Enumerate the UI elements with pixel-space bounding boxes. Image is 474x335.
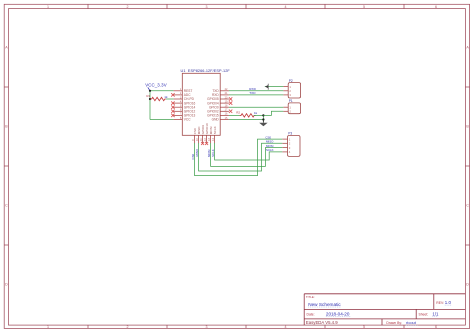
ground symbol xyxy=(259,120,267,126)
U1 pin 11 GPIO9 (bottom, no-connect X) xyxy=(200,125,205,145)
U1 pin 21 RXD (right) xyxy=(212,92,229,97)
U1 pin 8 VCC (left) xyxy=(174,117,192,122)
R1 value label 1k xyxy=(164,95,168,99)
svg-text:REV:: REV: xyxy=(436,301,444,305)
svg-text:EasyEDA V5.4.9: EasyEDA V5.4.9 xyxy=(306,320,338,325)
connector P2 (3-pin header) xyxy=(283,83,300,98)
svg-text:1: 1 xyxy=(47,5,49,9)
U1 pin 4 GPIO16 (left, no-connect X) xyxy=(171,100,195,105)
U1 pin 15 GND (right) xyxy=(212,117,229,122)
svg-text:4: 4 xyxy=(285,325,287,329)
R1 designator label xyxy=(146,94,150,98)
U1 pin 17 GPIO02 (right, no-connect X) xyxy=(207,109,232,114)
U1 pin 7 GPIO13 (left, no-connect X) xyxy=(171,113,195,118)
power arrow flag on P2 pin 1 xyxy=(265,84,284,90)
net label MOSI (at P3) xyxy=(266,144,274,148)
net label MISO (at P3) xyxy=(266,140,274,144)
resistor R2 xyxy=(240,114,256,117)
svg-text:VCC_3.3V: VCC_3.3V xyxy=(145,82,167,87)
U1 pin 2 ADC (left, no-connect X) xyxy=(171,92,191,97)
wire rail to VCC pin xyxy=(150,119,174,121)
svg-text:C: C xyxy=(5,204,8,208)
wire VCC_3.3V to REST xyxy=(150,90,174,92)
wire RXD pin to P2 pin 3 xyxy=(229,94,284,96)
wire MOSI net: U1 pin 13 to P3 pin 3 xyxy=(211,143,283,166)
P2 designator label xyxy=(289,79,293,83)
svg-text:GND: GND xyxy=(212,118,220,122)
U1 pin 13 MOSI (bottom) xyxy=(208,126,213,143)
net label MISO (vertical, at U1) xyxy=(195,148,199,156)
svg-text:Date:: Date: xyxy=(307,313,315,317)
wire ground node vertical xyxy=(262,115,264,122)
svg-text:TITLE:: TITLE: xyxy=(306,295,315,299)
svg-text:4: 4 xyxy=(285,5,287,9)
net label SCLK (vertical, at U1) xyxy=(211,149,215,157)
net label TXD xyxy=(249,91,256,95)
junction at rail / R1 xyxy=(149,98,151,100)
U1 pin 3 CH-PD (left) xyxy=(174,96,195,101)
P1 designator label xyxy=(289,99,293,103)
svg-text:1: 1 xyxy=(47,325,49,329)
svg-text:SCLK: SCLK xyxy=(266,148,274,152)
svg-text:1k: 1k xyxy=(164,95,168,99)
U1 pin 16 GPIO15 (right) xyxy=(207,113,229,118)
wire P1 pin 2 to ground node (stepped) xyxy=(263,111,283,115)
wire R2 to ground node xyxy=(254,114,264,116)
svg-text:VCC: VCC xyxy=(184,118,191,122)
wire GND pin to ground node xyxy=(229,119,264,121)
net label SCLK (at P3) xyxy=(266,148,274,152)
svg-text:MISO: MISO xyxy=(195,148,199,156)
title block xyxy=(304,294,465,325)
U1 pin 19 GPIO04 (right, no-connect X) xyxy=(207,100,232,105)
svg-text:P1: P1 xyxy=(289,99,293,103)
svg-text:1k: 1k xyxy=(254,111,258,115)
power flag VCC_3.3V xyxy=(145,82,167,90)
svg-text:2: 2 xyxy=(127,325,129,329)
U1 pin 10 MISO (bottom) xyxy=(196,126,201,143)
svg-text:1/1: 1/1 xyxy=(432,312,439,317)
junction ground node upper xyxy=(262,114,264,116)
svg-text:TXD: TXD xyxy=(249,91,256,95)
wire R1 to CH-PD xyxy=(166,98,174,100)
wire SCLK net: U1 pin 14 to P3 pin 4 xyxy=(215,143,283,160)
svg-text:P2: P2 xyxy=(289,79,293,83)
U1 pin 22 TXD (right) xyxy=(212,88,229,93)
P3 designator label xyxy=(288,132,292,136)
U1 pin 18 GPIO0 (right) xyxy=(209,105,229,110)
R2 value label 1k xyxy=(254,111,258,115)
svg-text:SCLK: SCLK xyxy=(213,126,217,134)
svg-text:New Schematic: New Schematic xyxy=(308,302,341,307)
wire MISO net: U1 pin 10 to P3 pin 2 xyxy=(199,143,283,171)
U1 pin 14 SCLK (bottom) xyxy=(212,126,217,143)
svg-text:5: 5 xyxy=(363,5,365,9)
wire CS0 net: U1 pin 9 to P3 pin 1 xyxy=(195,139,283,176)
U1 pin 9 CS0 (bottom) xyxy=(192,128,197,143)
net label CS0 (at P3) xyxy=(265,135,271,139)
U1 pin 1 REST (left) xyxy=(174,88,193,93)
U1 pin 12 GPIO10 (bottom, no-connect X) xyxy=(204,123,209,145)
junction at VCC_3.3V / REST xyxy=(149,90,151,92)
wire GPIO15 to R2 xyxy=(229,114,240,116)
svg-text:Sheet:: Sheet: xyxy=(419,313,429,317)
svg-text:2: 2 xyxy=(127,5,129,9)
svg-text:3: 3 xyxy=(206,325,208,329)
svg-text:D: D xyxy=(466,283,469,287)
wire TXD pin to P2 pin 2 xyxy=(229,90,284,92)
svg-text:6: 6 xyxy=(435,5,437,9)
IC U1 reference designator and part name label xyxy=(181,69,231,73)
IC U1 ESP8266-12F body xyxy=(182,73,220,135)
resistor R1 xyxy=(150,97,166,100)
connector P1 (2-pin header) xyxy=(283,103,300,114)
svg-text:U1 ESP8266-12F/ESP-12F: U1 ESP8266-12F/ESP-12F xyxy=(181,69,231,73)
svg-text:R1: R1 xyxy=(146,94,150,98)
R2 designator label xyxy=(236,111,240,115)
svg-text:D: D xyxy=(5,283,8,287)
svg-text:P3: P3 xyxy=(288,132,292,136)
svg-text:Drawn By:: Drawn By: xyxy=(386,321,402,325)
svg-text:C: C xyxy=(466,204,469,208)
svg-text:ricout: ricout xyxy=(406,320,417,325)
svg-text:5: 5 xyxy=(363,325,365,329)
net label MOSI (vertical, at U1) xyxy=(207,149,211,157)
svg-text:6: 6 xyxy=(435,325,437,329)
net label RXD xyxy=(249,87,256,91)
junction ground node lower xyxy=(262,118,264,120)
U1 pin 20 GPIO05 (right, no-connect X) xyxy=(207,96,232,101)
svg-text:SCLK: SCLK xyxy=(211,149,215,157)
net label CS0 (vertical, at U1) xyxy=(191,153,195,159)
U1 pin 6 GPIO12 (left, no-connect X) xyxy=(171,109,195,114)
wire VCC_3.3V vertical rail xyxy=(149,91,151,120)
wire GPIO0 pin to P1 pin 1 xyxy=(229,106,284,108)
svg-text:3: 3 xyxy=(206,5,208,9)
svg-text:R2: R2 xyxy=(236,111,240,115)
connector P3 (4-pin header) xyxy=(282,136,300,157)
svg-text:1.0: 1.0 xyxy=(445,300,452,305)
svg-text:2018-04-20: 2018-04-20 xyxy=(326,312,350,317)
U1 pin 5 GPIO14 (left, no-connect X) xyxy=(171,105,195,110)
